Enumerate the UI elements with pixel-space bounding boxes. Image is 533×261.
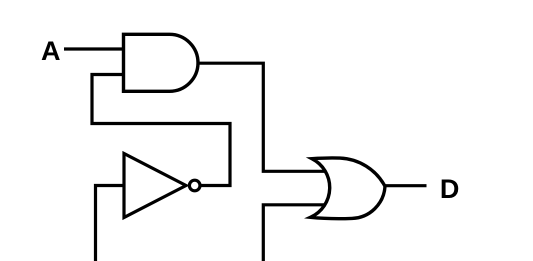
wire OR gate input 2 from bottom edge xyxy=(263,205,324,261)
AND gate xyxy=(124,34,199,91)
inverter bubble xyxy=(189,180,200,191)
wire OR gate output to D xyxy=(384,184,427,187)
svg-text:A: A xyxy=(41,36,61,66)
wire feedback: inverter output up to AND gate input 2 xyxy=(92,75,230,186)
wire inverter input from bottom edge xyxy=(96,186,125,261)
wire A to AND gate input 1 xyxy=(64,47,124,50)
wire AND gate output to OR gate input 1 xyxy=(198,63,326,171)
svg-text:D: D xyxy=(440,174,460,204)
inverter triangle xyxy=(124,154,186,218)
OR gate xyxy=(311,158,386,219)
